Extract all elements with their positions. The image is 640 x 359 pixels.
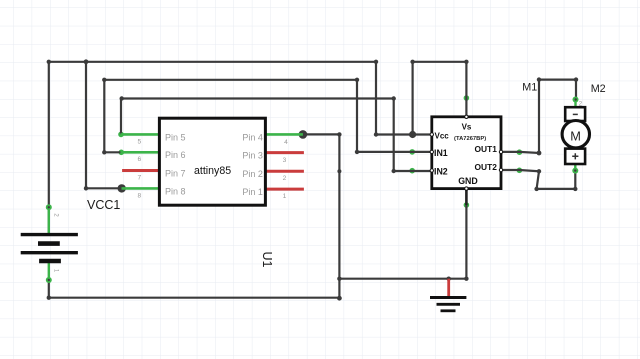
- pin OUT2 open circle: [499, 168, 502, 171]
- ground bar 2: [437, 303, 461, 306]
- battery plate long bottom: [21, 251, 78, 254]
- battery plate long top: [21, 233, 78, 236]
- svg-text:3: 3: [283, 157, 287, 164]
- svg-text:attiny85: attiny85: [194, 165, 231, 177]
- svg-text:Pin 8: Pin 8: [165, 186, 186, 196]
- wire pin4 to ground rail: [303, 134, 340, 298]
- node corner J1: [537, 169, 541, 173]
- svg-text:Pin 6: Pin 6: [165, 150, 186, 160]
- pin 8 stub: [122, 187, 160, 190]
- pin 1 stub: [265, 188, 304, 191]
- battery VCC1: [21, 204, 78, 283]
- svg-text:OUT2: OUT2: [475, 162, 498, 172]
- svg-text:VCC1: VCC1: [87, 198, 120, 212]
- pin 7 stub: [122, 169, 159, 172]
- node corner A3: [374, 60, 378, 64]
- node corner C4: [355, 150, 359, 154]
- node junction A2: [84, 59, 89, 64]
- node corner C2: [102, 150, 106, 154]
- wire Vs loop: [413, 62, 467, 135]
- wire pin5 to IN2: [121, 99, 432, 172]
- pin IN1 open circle: [430, 150, 433, 153]
- svg-text:Vcc: Vcc: [435, 131, 450, 140]
- pin 2 stub: [265, 170, 304, 173]
- node corner G2: [464, 277, 468, 281]
- node pin8 junction dot: [118, 184, 126, 192]
- wire VCC to pin8: [86, 62, 122, 189]
- wire pin6 to IN1: [104, 80, 432, 153]
- ground symbol: [430, 279, 466, 311]
- node corner D3: [392, 169, 396, 173]
- terminal green dot OUT1: [517, 149, 523, 155]
- svg-text:8: 8: [137, 192, 141, 199]
- battery pin 2 stub: [48, 207, 50, 235]
- battery plate short upper: [38, 241, 60, 246]
- ground bar 3: [441, 309, 456, 312]
- svg-text:Pin 1: Pin 1: [242, 187, 263, 197]
- svg-text:7: 7: [137, 174, 141, 181]
- transistor driver U2 TA7267BP body: [430, 115, 503, 205]
- node corner A4: [374, 132, 378, 136]
- ground bar 1: [430, 296, 466, 299]
- motor terminal green dot bottom: [572, 168, 578, 174]
- node corner D2: [392, 96, 396, 100]
- terminal green dot pin6: [119, 150, 125, 156]
- svg-text:Pin 7: Pin 7: [165, 168, 186, 178]
- terminal green dot IN1: [409, 149, 415, 155]
- node corner C3: [355, 78, 359, 82]
- pin GND bottom open circle: [465, 187, 468, 190]
- pin 5 stub: [120, 133, 159, 136]
- node junction F3: [337, 277, 341, 281]
- battery plate short lower: [39, 259, 61, 264]
- svg-text:Pin 3: Pin 3: [242, 151, 263, 161]
- motor M2: [562, 97, 589, 174]
- node corner E1: [410, 60, 414, 64]
- op-amp U1 attiny85 body: [120, 118, 304, 205]
- battery terminal dot top: [46, 204, 52, 210]
- node corner F1: [337, 132, 341, 136]
- svg-text:U1: U1: [260, 252, 274, 268]
- motor body circle: [562, 121, 589, 148]
- pin IN2 open circle: [430, 169, 433, 172]
- node corner I1: [537, 151, 542, 156]
- ground stub red: [447, 279, 450, 296]
- terminal green dot Vs top: [464, 95, 470, 101]
- pin 4 stub: [265, 133, 303, 136]
- node corner I2: [537, 77, 541, 81]
- pin OUT1 open circle: [499, 150, 502, 153]
- motor top terminal rect: [565, 107, 585, 121]
- svg-text:Pin 2: Pin 2: [242, 169, 263, 179]
- node pin4 junction dot: [299, 130, 308, 139]
- wire battery negative: [49, 280, 340, 298]
- node corner D1: [120, 96, 124, 100]
- node corner E2: [464, 60, 468, 64]
- wire OUT2 to motor bottom: [501, 170, 575, 189]
- svg-text:Pin 4: Pin 4: [242, 132, 263, 142]
- terminal green dot IN2: [409, 168, 415, 174]
- terminal green dot GND: [464, 202, 470, 208]
- svg-text:M1: M1: [522, 81, 537, 93]
- motor minus sign: [573, 113, 578, 115]
- svg-text:2: 2: [283, 175, 287, 182]
- pin 6 stub: [120, 151, 159, 154]
- pin 3 stub: [265, 151, 304, 154]
- node joint F2: [337, 169, 341, 173]
- node corner C1: [102, 78, 106, 82]
- battery pin 1 stub: [48, 261, 50, 279]
- node corner H1: [47, 296, 51, 300]
- svg-text:4: 4: [284, 139, 288, 146]
- svg-text:1: 1: [283, 193, 287, 200]
- svg-text:IN1: IN1: [434, 148, 448, 158]
- node corner I3: [574, 77, 578, 81]
- svg-text:GND: GND: [458, 176, 478, 186]
- svg-text:(TA7267BP): (TA7267BP): [454, 136, 486, 142]
- svg-text:IN2: IN2: [434, 166, 448, 176]
- svg-text:M2: M2: [591, 83, 606, 95]
- motor top terminal stub: [574, 97, 576, 108]
- svg-text:Pin 5: Pin 5: [165, 132, 186, 142]
- terminal green dot pin5: [118, 132, 124, 138]
- svg-text:M: M: [570, 129, 581, 144]
- node corner J2: [534, 187, 538, 191]
- motor bottom terminal rect: [565, 149, 585, 164]
- terminal green dot OUT2: [517, 168, 523, 174]
- svg-text:OUT1: OUT1: [475, 144, 498, 154]
- svg-text:Vs: Vs: [462, 123, 472, 132]
- pin Vcc open circle: [430, 133, 433, 136]
- motor plus sign: [572, 153, 578, 159]
- wire OUT1 to motor top: [501, 80, 576, 153]
- battery terminal dot bottom: [46, 277, 52, 283]
- node corner B1: [84, 186, 88, 190]
- node corner A1: [47, 60, 51, 64]
- node junction G1: [447, 277, 451, 281]
- pin Vs top open circle: [465, 115, 468, 118]
- U1 body rect: [159, 118, 265, 205]
- node corner J3: [573, 187, 577, 191]
- wire net VCC top rail: [49, 62, 432, 234]
- node Vcc junction dot: [409, 131, 416, 138]
- svg-text:6: 6: [137, 156, 141, 163]
- wire ground rail: [339, 205, 466, 279]
- motor terminal green dot top: [573, 97, 579, 103]
- node junction F4: [337, 296, 342, 301]
- motor bottom terminal stub: [574, 164, 576, 169]
- svg-text:5: 5: [137, 138, 141, 145]
